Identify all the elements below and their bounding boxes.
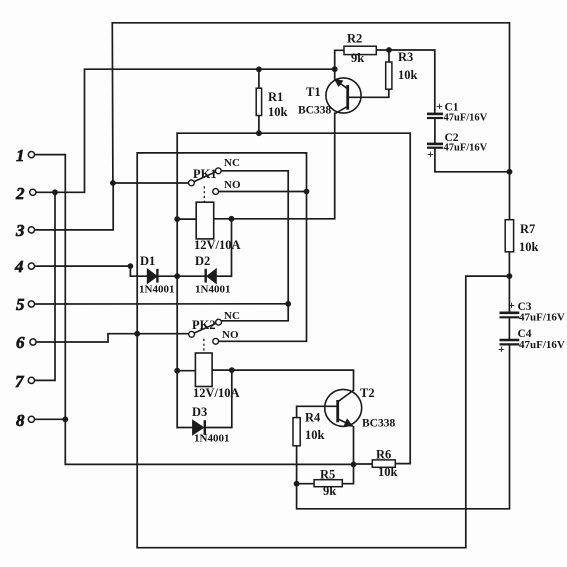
junction node terminal5-NC	[285, 301, 291, 307]
wire inner loop left vertical x177	[176, 133, 178, 427]
wire terminal2-terminal7 vertical	[54, 192, 56, 380]
svg-text:NC: NC	[224, 157, 240, 169]
wire terminal1/8 vertical and long bottom horizontal to T2 emitter	[65, 155, 353, 465]
svg-text:10k: 10k	[378, 465, 398, 479]
svg-text:3: 3	[15, 221, 25, 240]
junction node R4 bottom	[294, 481, 300, 487]
svg-text:T2: T2	[360, 386, 375, 400]
resistor R1	[256, 69, 287, 133]
junction node terminal 4 D1	[128, 263, 134, 269]
junction node R1 bottom	[256, 130, 262, 136]
terminal 6	[16, 333, 189, 352]
wire NO net: term6 riser, top link, NO1 vertical, NO2 line	[137, 153, 306, 548]
junction node PK1 coil left	[174, 216, 180, 222]
wire top rail from terminal3 riser to top-right corner	[112, 23, 509, 183]
relay PK2 contacts	[189, 310, 240, 353]
terminal 5	[16, 295, 288, 314]
resistor R6	[354, 448, 398, 480]
wire D3 loop riser	[231, 370, 233, 427]
svg-text:+: +	[508, 298, 515, 312]
wire right rail mid (R7 bottom to C3 top)	[508, 252, 510, 312]
svg-text:1N4001: 1N4001	[195, 284, 230, 296]
capacitor C1	[427, 99, 488, 143]
wire inner loop top y133	[177, 132, 410, 134]
junction node terminal6-PK2 pole	[134, 331, 140, 337]
junction node R3 top	[386, 47, 392, 53]
svg-text:R1: R1	[268, 90, 283, 104]
terminal 3	[15, 183, 113, 240]
svg-text:NO: NO	[222, 329, 239, 341]
diode D2	[177, 254, 231, 296]
junction node PK1 coil right	[229, 216, 235, 222]
svg-text:+: +	[427, 147, 434, 161]
svg-text:D1: D1	[140, 254, 155, 268]
wire inner loop right vertical x410 down to R6	[395, 133, 410, 463]
svg-text:+: +	[498, 342, 505, 356]
svg-text:1N4001: 1N4001	[139, 284, 174, 296]
junction node NO1	[304, 189, 310, 195]
svg-text:1N4001: 1N4001	[194, 433, 229, 445]
terminal 4	[14, 257, 130, 276]
resistor R4	[293, 411, 325, 484]
terminal 1	[16, 146, 65, 165]
svg-text:7: 7	[15, 372, 25, 391]
wire bottom link from NO net to R7/C3 node	[137, 276, 509, 548]
svg-text:D3: D3	[192, 405, 207, 419]
svg-text:47uF/16V: 47uF/16V	[519, 312, 565, 324]
svg-text:10k: 10k	[305, 428, 325, 442]
svg-text:9k: 9k	[323, 484, 336, 498]
junction node D1-D2	[174, 273, 180, 279]
junction node PK1 pole	[110, 180, 116, 186]
relay PK1 coil	[177, 202, 240, 252]
terminal 8	[16, 411, 65, 430]
svg-text:R7: R7	[520, 222, 535, 236]
svg-text:47uF/16V: 47uF/16V	[444, 143, 488, 154]
svg-text:47uF/16V: 47uF/16V	[444, 113, 488, 124]
wire right rail upper (C2 junction to R7 top)	[509, 172, 511, 220]
svg-text:NC: NC	[224, 310, 240, 322]
svg-text:5: 5	[16, 295, 25, 314]
wire R3 junction to C1	[389, 50, 435, 113]
capacitor C2	[427, 132, 510, 172]
wire PK1 coil right to T1 collector riser	[214, 113, 335, 219]
wire NC2 line	[222, 304, 289, 321]
svg-text:R4: R4	[305, 411, 321, 425]
junction node C2 bottom	[507, 169, 513, 175]
resistor R5	[297, 464, 354, 498]
resistor R7	[505, 220, 538, 254]
svg-text:+: +	[436, 99, 443, 113]
relay PK1 contacts	[113, 157, 241, 202]
wire right rail lower (C4 bottom, down, left to R4 node)	[297, 345, 510, 509]
resistor R2	[335, 32, 389, 70]
svg-text:R5: R5	[320, 468, 335, 482]
wire PK2 coil right to T2 collector riser	[212, 370, 353, 390]
junction node T2 emitter	[351, 462, 357, 468]
svg-text:10k: 10k	[398, 68, 418, 82]
capacitor C4	[498, 328, 565, 356]
svg-text:R6: R6	[376, 448, 391, 462]
svg-text:D2: D2	[195, 254, 210, 268]
resistor R3	[349, 50, 418, 97]
svg-text:2: 2	[15, 184, 25, 203]
svg-text:BC338: BC338	[298, 105, 331, 117]
transistor T2	[297, 386, 396, 464]
junction node PK2 coil right	[229, 367, 235, 373]
wire D2 loop riser	[231, 219, 233, 276]
svg-text:8: 8	[16, 411, 25, 430]
svg-text:6: 6	[16, 333, 25, 352]
svg-text:47uF/16V: 47uF/16V	[519, 339, 565, 351]
svg-text:NO: NO	[224, 179, 241, 191]
junction node terminal 8	[62, 416, 68, 422]
svg-text:9k: 9k	[351, 51, 364, 65]
junction node T1 emitter	[332, 66, 338, 72]
junction node PK2 coil left	[174, 368, 180, 374]
svg-text:10k: 10k	[268, 105, 288, 119]
junction node terminal 2	[52, 189, 58, 195]
svg-text:BC338: BC338	[362, 418, 395, 430]
wire NO1 line	[219, 191, 307, 193]
diode D1	[130, 254, 177, 296]
svg-text:12V/10A: 12V/10A	[194, 238, 241, 252]
svg-text:R3: R3	[398, 50, 413, 64]
svg-text:10k: 10k	[519, 240, 539, 254]
svg-text:R2: R2	[347, 32, 362, 46]
capacitor C3	[500, 298, 565, 324]
terminal 2	[15, 184, 85, 203]
svg-text:1: 1	[16, 146, 25, 165]
junction node R1 top	[256, 66, 262, 72]
junction node R7 bottom	[507, 273, 513, 279]
terminal 7	[15, 372, 55, 391]
wire emitter rail T1 (terminal2 riser + horizontal y69)	[85, 69, 335, 192]
transistor T1	[298, 69, 361, 116]
relay PK2 coil	[177, 353, 239, 400]
svg-text:T1: T1	[306, 85, 321, 99]
svg-text:PK1: PK1	[193, 167, 217, 181]
svg-text:4: 4	[14, 257, 24, 276]
wire C3-C4 link	[508, 318, 510, 340]
diode D3	[177, 405, 232, 445]
svg-text:12V/10A: 12V/10A	[193, 386, 240, 400]
wire NC1 line	[221, 171, 288, 304]
